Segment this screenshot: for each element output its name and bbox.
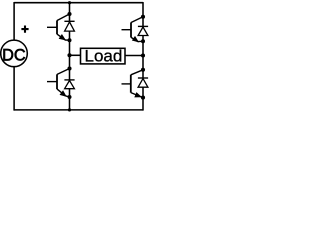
transistor Q2 (top-right) bbox=[122, 17, 144, 42]
node collector junction Q4 bbox=[141, 68, 145, 72]
wire left leg bbox=[69, 3, 71, 110]
node emitter junction Q3 bbox=[68, 95, 72, 99]
node left leg bottom bbox=[68, 108, 71, 111]
node collector junction Q3 bbox=[67, 66, 71, 70]
node collector junction Q2 bbox=[141, 15, 145, 19]
node right midpoint B bbox=[141, 53, 145, 57]
transistor Q3 (bottom-left) bbox=[47, 69, 70, 98]
svg-text:Load: Load bbox=[84, 47, 122, 66]
load box bbox=[81, 47, 126, 66]
diode D3 (bottom-left) bbox=[64, 80, 74, 89]
wire top rail bbox=[14, 2, 143, 4]
wire load right bbox=[125, 55, 143, 57]
node collector junction Q1 bbox=[67, 12, 71, 16]
wire right leg bbox=[142, 2, 144, 111]
plus polarity mark bbox=[21, 26, 28, 33]
svg-text:DC: DC bbox=[2, 47, 26, 65]
node left midpoint A bbox=[67, 53, 71, 57]
transistor Q1 (top-left) bbox=[47, 14, 70, 40]
node emitter junction Q1 bbox=[68, 38, 72, 42]
diode D4 (bottom-right) bbox=[138, 78, 148, 87]
wire load left bbox=[70, 54, 81, 56]
node emitter junction Q4 bbox=[141, 96, 145, 100]
wire left source lower bbox=[13, 67, 15, 111]
transistor Q4 (bottom-right) bbox=[122, 70, 144, 98]
wire bottom rail bbox=[14, 109, 143, 111]
wire left source upper bbox=[13, 2, 15, 40]
node emitter junction Q2 bbox=[141, 39, 145, 43]
diode D1 (top-left) bbox=[64, 21, 74, 31]
dc source V1 bbox=[1, 40, 28, 67]
diode D2 (top-right) bbox=[138, 26, 148, 35]
node left leg top bbox=[68, 1, 71, 4]
